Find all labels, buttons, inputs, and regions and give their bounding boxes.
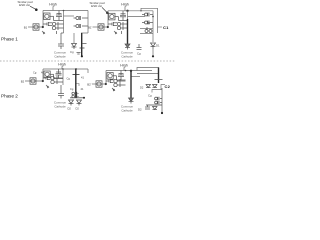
node junction rail (p2 left output) [75,68,77,70]
transistor M12 upper (clamp p2 left) [72,92,79,95]
wire jog to output [81,32,88,34]
wire left edge vertical [42,11,44,28]
wire right edge vertical [87,11,89,34]
wire output vertical (thick, p2 left) [75,69,77,98]
wire cap branch vertical upper (right) [127,11,129,19]
wire top rail (p2 right) [106,70,152,72]
node output dot (right) [152,55,154,57]
svg-text:Cg: Cg [148,94,152,98]
wire top rail [43,10,88,12]
capacitor plate bar (p2 left) [73,74,80,76]
node junction on rail (p2 right) [125,70,127,72]
transistor M9 (mid) [145,27,152,33]
svg-text:B1: B1 [24,25,28,29]
svg-text:Phase 2: Phase 2 [1,94,18,99]
wire High tick (p2 right) [123,67,125,70]
svg-text:Cathode: Cathode [121,108,133,112]
wire output stub arrow [82,43,86,45]
pad P8 (square with circle) [96,81,102,87]
wire gate feed (p2 right) [131,76,140,78]
node junction stack upper [152,16,154,18]
wire output vertical bottom (right) [152,49,154,56]
transistor M5 [119,11,128,21]
device plates (p2 right) [155,79,163,81]
diode row glyphs (p2 right) [146,85,157,88]
wire left edge vertical (right) [107,11,109,27]
svg-text:Cg: Cg [70,50,74,54]
node junction on rail [63,10,65,12]
phase separator dashed line [0,60,176,62]
arrow mark below input (p2 right) [112,88,115,91]
annotation arrow (right) [102,7,107,12]
svg-text:High: High [120,64,127,68]
transistor M1 [54,11,64,21]
svg-text:B2': B2' [87,82,91,86]
svg-text:Phase 1: Phase 1 [1,37,18,42]
label Common Cathode (phase1 right) [121,51,134,59]
annotation: Similar pad ESD ckt (phase 1 right) [89,1,104,8]
wire output horizontal (p2 right bottom) [146,104,162,106]
annotation arrowhead dot (right) [106,12,109,15]
bracket small (p2 right bottom) [152,90,162,93]
svg-text:D2: D2 [140,86,144,90]
svg-text:Cg: Cg [67,77,71,81]
wire High tick (right) [124,6,126,10]
node junction input (p2 left) [42,80,44,82]
bulk tick below M2 [56,31,58,34]
svg-text:D2: D2 [76,107,80,111]
pad P1 (square with circle) [44,13,54,20]
pad P2 (square with circle) [33,24,39,30]
svg-text:High: High [121,3,128,7]
wire High tick (p2 left) [61,66,63,69]
capacitor C (p2 left) [58,85,64,99]
svg-text:Cathode: Cathode [54,104,66,108]
pad P4 (square with circle) [98,24,104,30]
svg-text:B1': B1' [88,25,92,29]
node output dot (p2 right bottom) [161,112,163,114]
transistor M7 upper (right stack) [142,13,153,17]
diode branch vertical [73,33,75,43]
wire feed lines to stack [140,28,153,30]
svg-text:ESD ckt: ESD ckt [91,4,102,8]
wire left edge vertical (p2 right) [105,71,107,85]
top bracket wire (p2 right) [137,68,159,72]
arrow mark below input (right) [114,31,117,34]
top bracket wire (right cell) [141,8,158,33]
wire output horizontal (p2 left) [70,97,84,99]
wire right stack vertical [152,11,154,42]
pad P3 (square with circle) [109,13,119,20]
node junction bracket-rail [140,10,141,11]
bulk tick below M6 [121,31,123,34]
wire High tick [52,6,54,10]
arrow mark below input [42,31,45,34]
wire right edge vertical (p2 left) [87,69,89,73]
svg-text:ESD ckt: ESD ckt [19,3,30,7]
svg-text:High: High [49,3,56,7]
diode Db (p2 left) [77,100,82,106]
wire top rail (right) [108,10,153,12]
pad P6 (square with circle) [30,78,36,84]
node junction input (p2 right) [105,83,107,85]
svg-text:High: High [58,63,65,67]
transistor M14 [117,71,126,81]
label Common Cathode (phase1 left) [54,51,67,59]
node output dot [81,55,83,57]
svg-text:D1: D1 [156,43,160,47]
wire input row (p2 left) [25,80,43,82]
capacitor small (right cell) [137,44,142,50]
node junction thick top (p2 right) [130,70,132,72]
label C1 with bracket [158,26,163,28]
pad P7 (square with circle) [107,73,117,80]
wire input row [28,26,43,28]
capacitor C (phase1 left) [58,33,64,49]
label Common Cathode (p2 right) [121,105,134,113]
wire left edge vertical (p2 left) [42,69,44,81]
arrow mark below input (p2 left) [46,85,49,88]
svg-text:C1: C1 [163,25,169,30]
pad P5 (square with circle) [44,71,54,78]
svg-text:B2: B2 [21,79,25,83]
big device vertical (thick, p2 right) [158,68,160,84]
node junction on rail (p2 left) [62,68,64,70]
annotation arrowhead dot (left) [35,8,38,11]
diode D1b [151,43,156,49]
node junction input [42,26,44,28]
annotation arrow (left) [30,6,36,9]
transistor M16 (p2 right bottom) [155,97,162,104]
transistor M3 upper (clamp) [74,16,89,20]
wire input row (p2 right) [92,83,106,85]
label C2 with bracket [161,85,165,91]
label Common Cathode (p2 left) [54,101,67,109]
wire mid vertical (p2 left) [62,69,64,85]
ground mark (phase1 left) [77,53,81,55]
transistor M2 (on input row) [43,22,64,30]
transistor M15 (input row p2 right) [106,79,126,87]
diode D2 (common cathode, p2 right) [129,98,134,104]
capacitor small (p2 right bottom) [145,105,150,109]
annotation: Similar pad ESD ckt (phase 1 left) [17,0,32,7]
wire clamp gate feed (p1 right) [128,16,146,18]
transistor M8 lower (right stack) [142,21,153,25]
svg-text:C2: C2 [165,84,171,89]
wire cap branch vertical (thick, p2 right) [130,71,132,99]
transistor M11 (input row p2 left) [43,76,63,84]
svg-text:Cg: Cg [33,71,37,75]
wire top rail (p2 left) [43,68,88,70]
wire output vertical (thick) [81,33,83,56]
node junction input (right) [107,26,109,28]
transistor M13 lower (clamp p2 left) [72,95,79,98]
svg-text:Cathode: Cathode [54,54,66,58]
svg-text:Cathode: Cathode [121,54,133,58]
wire feed line 2 (p2 right) [137,73,159,75]
bracket tick (p2 left branch) [77,84,80,87]
svg-text:D2: D2 [138,108,142,112]
diode (p2 right bottom) [153,107,158,110]
diode D1 (common cathode, right cell) [125,44,130,50]
transistor M6 (on input row right) [108,22,128,30]
transistor M10 [54,69,64,79]
svg-text:D2: D2 [68,107,72,111]
svg-text:Cg: Cg [137,51,141,55]
node plate tick [80,47,85,49]
node junction on rail (right) [126,10,128,12]
wire lower right vertical (p2 right) [161,88,163,113]
node output dot (p2 left) [83,97,85,99]
wire cap branch vertical (thick, right) [127,19,129,44]
node junction stack lower [148,22,150,24]
diode Da (p2 left) [69,100,74,106]
svg-text:Cg: Cg [70,87,74,91]
wire mid vertical [63,11,65,34]
diode D (phase1 left) [72,44,77,50]
wire clamp gate feed [64,15,75,17]
transistor M4 lower (clamp) [74,24,89,28]
wire input row (right) [93,26,109,28]
